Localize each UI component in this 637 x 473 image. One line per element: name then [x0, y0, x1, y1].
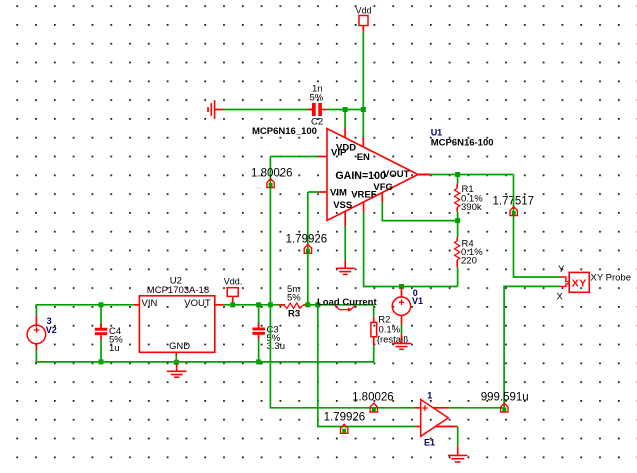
wire VREF pin down and right [363, 202, 365, 212]
wire VFG pin down and right [381, 193, 383, 202]
svg-text:Y: Y [558, 264, 565, 275]
svg-text:Vdd.: Vdd. [224, 277, 243, 287]
voltage source V1 [392, 287, 423, 316]
wire VOUT to XY probe Y [514, 175, 560, 278]
wire E1 + input (from VIP line) [270, 305, 415, 408]
svg-text:Vdd: Vdd [356, 6, 372, 16]
node junction VOUT/R1 [455, 172, 460, 177]
capacitor C2 [308, 84, 326, 128]
node junction R3 right / VIM line [305, 302, 310, 307]
svg-text:GND: GND [169, 341, 190, 352]
svg-text:1: 1 [427, 391, 432, 401]
svg-text:1.80026: 1.80026 [251, 167, 293, 179]
svg-text:VOUT: VOUT [383, 169, 410, 180]
node Vdd. jumper [224, 277, 243, 303]
probe on VOUT line [510, 207, 517, 216]
resistor R2 [371, 305, 409, 362]
ground (U2) [167, 364, 187, 378]
svg-text:E1: E1 [424, 438, 435, 448]
svg-text:MCP6N16_100: MCP6N16_100 [252, 126, 317, 137]
svg-text:5%: 5% [287, 292, 301, 303]
svg-text:VIP: VIP [331, 148, 347, 159]
svg-text:VOUT: VOUT [184, 298, 211, 309]
XY probe [557, 264, 632, 303]
svg-text:V1: V1 [412, 296, 423, 306]
wire VIM pin [319, 191, 328, 193]
resistor R4 [455, 221, 484, 287]
probe on E1 + input [370, 403, 377, 412]
regulator U2 [134, 275, 224, 355]
wire U2 GND to bottom rail [175, 356, 177, 362]
node junction C4 top [99, 302, 104, 307]
svg-text:220: 220 [461, 256, 477, 267]
wire Vdd vertical to C2 rail [362, 31, 364, 110]
node junction VIP line on rail [268, 302, 273, 307]
probe on E1 output [501, 403, 508, 412]
svg-text:XY Probe: XY Probe [591, 273, 632, 284]
svg-text:999.591u: 999.591u [481, 391, 529, 403]
svg-text:GAIN=100: GAIN=100 [335, 170, 386, 182]
wire VIP vertical down to rail [269, 157, 271, 305]
svg-text:R3: R3 [288, 309, 300, 320]
ground (V1) [392, 334, 411, 350]
wire VOUT rail (U2 to R3 to R2) [223, 304, 285, 306]
probe on E1 - input [341, 424, 348, 433]
wire VDD pin of U1 [344, 110, 346, 129]
ground (VSS) [336, 260, 355, 275]
svg-text:Load Current: Load Current [317, 297, 377, 308]
svg-text:390k: 390k [461, 202, 482, 213]
svg-text:U1: U1 [431, 128, 443, 138]
wire VIM vertical down to rail [307, 192, 309, 305]
node junction C2/Vdd wire [361, 107, 366, 112]
node junction E1- line on rail [315, 302, 320, 307]
svg-text:5%: 5% [310, 93, 324, 104]
resistor R1 [455, 175, 484, 221]
node junction C3 top [256, 302, 261, 307]
svg-text:MCP1703A-18: MCP1703A-18 [147, 285, 209, 296]
wire VSS pin down [344, 212, 346, 227]
node Vdd jumper (top) [356, 6, 372, 32]
current arrow [335, 306, 356, 312]
resistor R3 [279, 284, 307, 320]
node junction R1/R4/VFG [455, 218, 460, 223]
wire E1 output + [433, 407, 449, 409]
probe on VIM line [304, 244, 311, 253]
svg-text:X: X [557, 292, 564, 303]
controlled source E1 [421, 391, 449, 448]
wire V2 top to VIN rail [36, 305, 133, 315]
voltage source V2 [27, 315, 57, 350]
svg-text:VIM: VIM [330, 187, 347, 198]
ground (E1) [448, 446, 467, 462]
svg-text:MCP6N16-100: MCP6N16-100 [431, 137, 494, 148]
capacitor C3 [252, 305, 285, 362]
node junction C4 bottom [99, 359, 104, 364]
ground (sideways, left of C2) [208, 100, 223, 119]
wire ground to C2 [223, 109, 312, 111]
node junction C3 bottom [256, 359, 261, 364]
svg-text:3.3u: 3.3u [267, 341, 286, 352]
svg-text:VIN: VIN [142, 298, 158, 309]
node junction GND rail [174, 360, 179, 365]
wire VOUT pin [418, 174, 430, 176]
svg-text:VREF: VREF [351, 190, 377, 201]
capacitor C4 [95, 305, 123, 362]
node junction VREF line / V1 [399, 284, 404, 289]
wire E1 output - to ground [435, 426, 458, 428]
wire X input from E1 output [504, 286, 559, 407]
wire VIP pin [319, 156, 328, 158]
svg-text:XY: XY [572, 278, 587, 290]
wire C2 to junctions [326, 109, 363, 111]
node junction C2/VDD pin [343, 107, 348, 112]
svg-text:1.79926: 1.79926 [324, 412, 366, 424]
probe on VIP line [267, 179, 274, 188]
wire EN pin of U1 [362, 110, 364, 138]
svg-text:VSS: VSS [333, 200, 352, 211]
svg-text:1u: 1u [109, 343, 120, 354]
wire V1 to ground [401, 315, 403, 324]
wire V2 bottom to bottom rail [36, 350, 373, 362]
svg-text:V2: V2 [46, 325, 57, 335]
wire E1 - input (from VIM rail) [318, 305, 415, 427]
op-amp U1 [327, 129, 418, 221]
svg-text:1.79926: 1.79926 [286, 233, 328, 245]
node junction Vdd. on rail [230, 302, 235, 307]
svg-text:1.80026: 1.80026 [352, 391, 394, 403]
svg-text:EN: EN [357, 152, 370, 163]
